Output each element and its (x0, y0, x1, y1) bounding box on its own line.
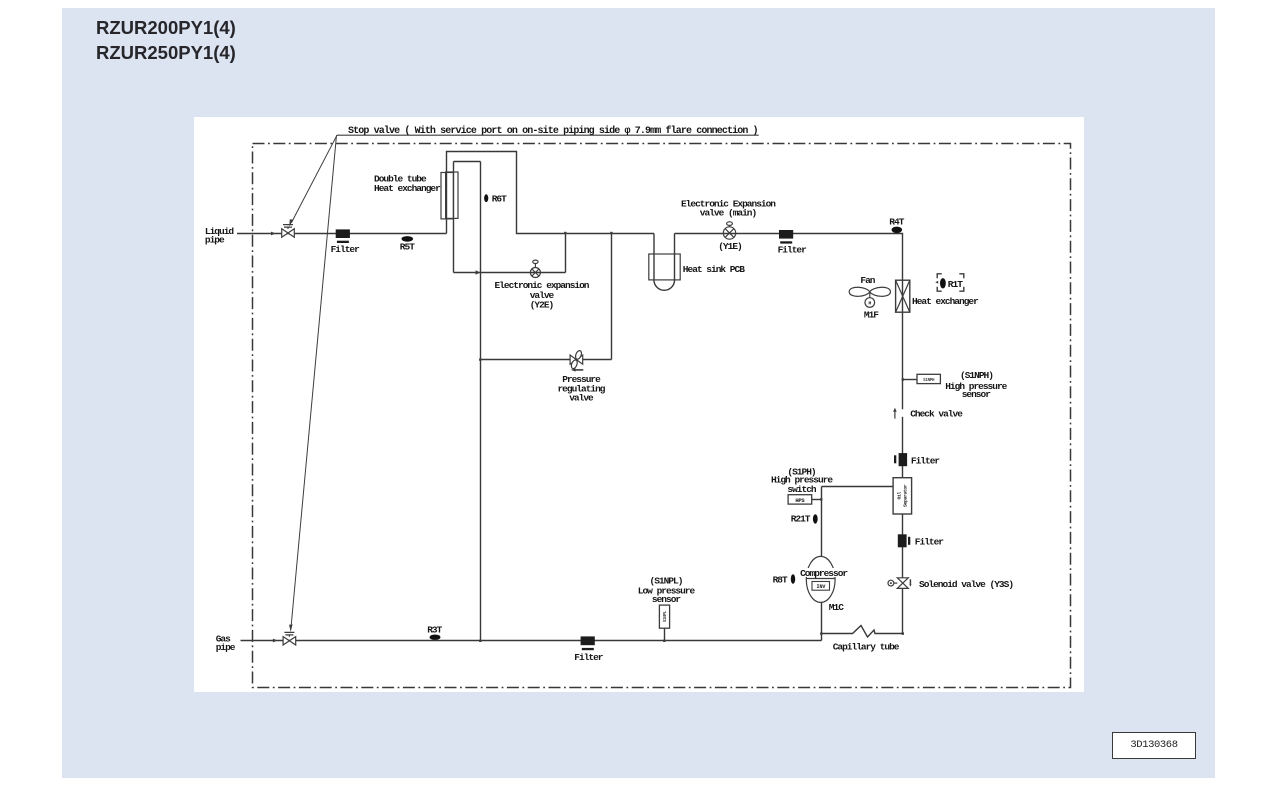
svg-text:Filter: Filter (915, 537, 945, 548)
svg-text:Oil: Oil (897, 492, 903, 500)
svg-text:M1F: M1F (864, 310, 879, 321)
svg-text:Solenoid valve (Y3S): Solenoid valve (Y3S) (919, 579, 1013, 590)
svg-text:R1T: R1T (948, 279, 963, 290)
svg-text:(Y1E): (Y1E) (718, 241, 742, 252)
svg-text:Capillary tube: Capillary tube (833, 642, 900, 653)
svg-text:Compressor: Compressor (800, 568, 848, 579)
svg-text:R8T: R8T (773, 574, 788, 585)
svg-text:R4T: R4T (889, 216, 904, 227)
svg-text:valve (main): valve (main) (700, 207, 757, 218)
svg-text:sensor: sensor (652, 594, 682, 605)
svg-text:switch: switch (787, 484, 817, 495)
svg-text:sensor: sensor (962, 389, 992, 400)
svg-text:Heat sink PCB: Heat sink PCB (683, 264, 745, 275)
svg-text:valve: valve (569, 392, 594, 403)
svg-text:Heat exchanger: Heat exchanger (912, 296, 979, 307)
svg-text:pipe: pipe (205, 235, 225, 246)
svg-text:M: M (869, 301, 872, 307)
svg-text:Filter: Filter (911, 455, 941, 466)
svg-text:R21T: R21T (791, 513, 811, 524)
svg-text:Heat exchanger: Heat exchanger (374, 183, 441, 194)
svg-text:HPS: HPS (795, 497, 805, 504)
svg-text:S1NPL: S1NPL (664, 610, 668, 622)
svg-text:Separator: Separator (903, 484, 909, 507)
svg-text:Filter: Filter (574, 652, 604, 663)
svg-text:R5T: R5T (400, 241, 415, 252)
svg-text:Fan: Fan (860, 275, 875, 286)
svg-text:Check valve: Check valve (910, 409, 963, 420)
svg-text:INV: INV (817, 584, 826, 590)
svg-text:R6T: R6T (492, 193, 507, 204)
svg-text:(S1NPH): (S1NPH) (960, 370, 993, 381)
svg-text:Filter: Filter (778, 244, 808, 255)
svg-text:(Y2E): (Y2E) (530, 300, 554, 311)
svg-text:Stop valve ( With service por: Stop valve ( With service port on on-sit… (348, 125, 758, 137)
svg-text:Filter: Filter (331, 244, 361, 255)
svg-text:pipe: pipe (216, 642, 236, 653)
svg-text:R3T: R3T (427, 625, 442, 636)
svg-text:S1NPH: S1NPH (923, 379, 935, 383)
svg-text:M1C: M1C (829, 602, 844, 613)
